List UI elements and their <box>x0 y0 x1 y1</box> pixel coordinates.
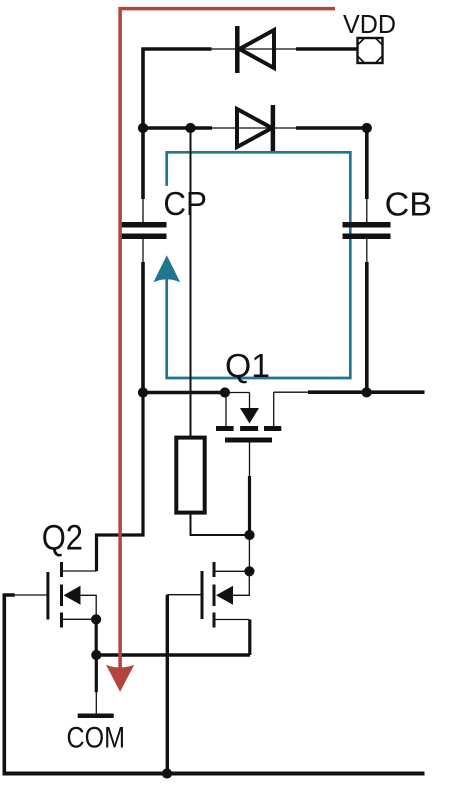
wire resistor net <box>190 128 192 438</box>
wire CB top <box>365 128 369 199</box>
svg-text:Q2: Q2 <box>42 519 83 558</box>
node bottom rail <box>162 768 172 778</box>
node Q2 source/bulk <box>91 614 101 624</box>
wire Q1 gate <box>249 443 251 477</box>
svg-text:CP: CP <box>163 186 207 223</box>
transistor Q1 <box>216 392 308 442</box>
transistor Q2 <box>15 562 97 628</box>
svg-text:VDD: VDD <box>343 9 396 39</box>
wire Q3 source down <box>248 620 251 656</box>
node Q3 drain/bulk <box>244 566 254 576</box>
current loop (teal) <box>153 152 350 378</box>
wire <box>296 47 358 51</box>
wire Q2 drain net <box>97 393 144 572</box>
diode D1 <box>237 26 274 73</box>
wire CP top <box>141 128 145 199</box>
wire Q3 gate to bottom rail <box>166 595 169 774</box>
node COM junction <box>91 650 101 660</box>
transistor Q3 <box>167 562 249 628</box>
wire <box>212 48 297 50</box>
wire CB bottom <box>365 262 369 393</box>
wire <box>143 49 212 128</box>
capacitor CP <box>120 199 167 262</box>
node Q1 gate / resistor junction <box>244 530 254 540</box>
teal arrow up <box>153 255 180 282</box>
wire <box>143 126 212 130</box>
discharge path (red) <box>106 9 335 692</box>
node top row junctions <box>138 123 148 133</box>
capacitor CB <box>343 199 391 262</box>
port VDD <box>358 38 383 63</box>
svg-text:CB: CB <box>385 187 432 224</box>
svg-text:COM: COM <box>67 722 126 755</box>
wire bottom rail <box>3 772 425 776</box>
rail junction dots <box>138 387 148 397</box>
wire <box>95 619 98 655</box>
wire resistor bottom <box>191 513 250 535</box>
wire <box>296 126 367 130</box>
wire rail left <box>143 391 225 395</box>
red arrow down <box>106 665 134 692</box>
resistor R1 <box>176 438 204 513</box>
wire <box>212 127 296 129</box>
diode D2 <box>237 105 273 151</box>
wire CP bottom <box>141 262 145 393</box>
svg-text:Q1: Q1 <box>225 348 270 385</box>
ground COM <box>78 655 114 718</box>
wire rail right <box>308 390 425 394</box>
wire COM rail <box>96 653 250 656</box>
wire Q2 gate to left rail <box>4 595 15 774</box>
